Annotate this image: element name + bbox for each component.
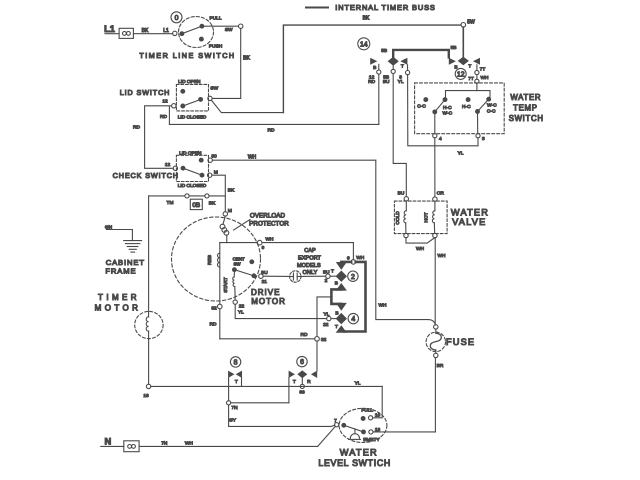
svg-text:YL: YL [238, 310, 244, 316]
motor terminal 9 [257, 236, 274, 251]
svg-text:RD: RD [301, 332, 308, 338]
svg-text:R: R [307, 379, 311, 385]
capacitor (export models only) [263, 248, 326, 282]
svg-text:SW: SW [225, 27, 233, 33]
drive motor label [251, 288, 286, 306]
svg-text:MOTOR: MOTOR [251, 297, 286, 306]
svg-text:C-C: C-C [487, 108, 496, 114]
svg-text:RD: RD [133, 125, 140, 131]
timer motor [95, 196, 163, 384]
svg-text:5W: 5W [467, 19, 475, 25]
svg-text:8: 8 [234, 360, 238, 367]
svg-text:PUSH: PUSH [209, 44, 223, 50]
svg-text:BU: BU [398, 191, 405, 197]
svg-text:WH: WH [248, 154, 257, 160]
lid switch [120, 79, 219, 121]
svg-text:YL: YL [355, 380, 361, 386]
terminal N [105, 436, 140, 451]
motor centrifugal switch [233, 257, 256, 278]
svg-text:M: M [228, 208, 232, 214]
svg-text:21: 21 [262, 279, 268, 285]
wire 7N/GY [227, 401, 335, 427]
svg-text:B: B [335, 310, 338, 316]
timer contact 2 [336, 262, 347, 291]
svg-text:4: 4 [439, 136, 442, 142]
svg-text:FUSE: FUSE [446, 337, 475, 347]
svg-text:ONLY: ONLY [302, 270, 317, 276]
svg-text:LID CLOSED: LID CLOSED [178, 183, 207, 189]
water level switch [318, 408, 391, 468]
wire RD: timer 12 down [378, 74, 380, 124]
svg-text:START: START [223, 277, 229, 292]
svg-text:COLD: COLD [395, 211, 401, 225]
svg-text:H-C: H-C [443, 105, 452, 111]
svg-text:SW: SW [233, 261, 241, 266]
timer contact 4 [336, 303, 347, 333]
wire L1 BK [105, 28, 173, 34]
svg-text:WATER: WATER [510, 93, 541, 102]
svg-text:M: M [214, 169, 218, 175]
valve COLD solenoid [395, 191, 409, 238]
svg-text:SW: SW [210, 85, 218, 91]
svg-text:BU: BU [261, 270, 268, 276]
svg-text:7N: 7N [161, 440, 168, 446]
svg-text:4: 4 [351, 316, 355, 323]
svg-text:FRAME: FRAME [105, 266, 136, 275]
svg-text:BK: BK [363, 15, 370, 21]
svg-text:OVERLOAD: OVERLOAD [250, 212, 286, 219]
timer terminal 2 [323, 269, 338, 287]
wire RD: lid switch 12 to check switch 12 [133, 106, 173, 169]
svg-text:16: 16 [375, 413, 381, 419]
timer contact 12 [455, 27, 466, 79]
svg-text:L1: L1 [163, 28, 169, 34]
timer contact 14 [358, 38, 457, 58]
svg-text:C-C: C-C [417, 104, 426, 110]
wire: water level 13 to fuse BR [373, 358, 444, 432]
svg-text:RES: RES [207, 255, 213, 265]
svg-text:WH: WH [438, 253, 447, 259]
timer contact 8 [230, 357, 240, 367]
svg-text:LID SWITCH: LID SWITCH [120, 88, 171, 97]
timer contact block 2/4: thick bars [331, 262, 365, 332]
water valve [394, 201, 489, 234]
temp switch terminal 3 [476, 134, 485, 142]
svg-text:7N: 7N [231, 405, 238, 411]
drive motor frame wires [220, 243, 354, 339]
svg-text:W-C: W-C [443, 110, 453, 116]
svg-text:CAP: CAP [304, 248, 316, 254]
svg-text:LID OPEN: LID OPEN [179, 150, 202, 156]
svg-text:RD: RD [268, 128, 275, 134]
svg-text:WH: WH [266, 236, 275, 242]
svg-text:YL: YL [323, 312, 329, 318]
svg-text:22: 22 [239, 303, 245, 309]
svg-text:B: B [335, 281, 338, 287]
svg-text:9: 9 [347, 255, 350, 261]
svg-text:T: T [331, 269, 334, 275]
svg-text:T: T [468, 63, 471, 69]
svg-text:WH: WH [416, 246, 425, 252]
svg-text:FULL: FULL [361, 408, 373, 414]
svg-text:T: T [293, 379, 296, 385]
wire BK: timer line switch to lid switch SW [212, 28, 250, 98]
svg-text:RD: RD [160, 114, 167, 120]
water temp switch [415, 83, 544, 134]
motor terminal 22 [233, 300, 244, 316]
timer contact 6 [297, 356, 307, 366]
svg-text:TIMER: TIMER [98, 293, 140, 302]
svg-text:0: 0 [175, 15, 179, 22]
svg-text:CHECK SWITCH: CHECK SWITCH [113, 171, 179, 180]
svg-text:WH: WH [481, 75, 490, 81]
svg-text:T: T [335, 324, 338, 330]
motor RES winding [207, 253, 220, 267]
svg-text:WH: WH [379, 303, 388, 309]
svg-text:32: 32 [211, 306, 217, 312]
node M [223, 208, 232, 216]
svg-text:PULL: PULL [210, 16, 222, 22]
svg-text:B: B [454, 64, 457, 70]
svg-text:32: 32 [321, 337, 327, 343]
svg-text:BR: BR [437, 363, 444, 369]
wire RD: timer 12 to lid/check 12 net [169, 107, 379, 134]
wire YL: timer 3 to temp switch 3 [408, 75, 478, 157]
svg-text:BK: BK [142, 28, 149, 34]
circled 4 [348, 313, 358, 323]
svg-text:2: 2 [351, 274, 355, 281]
svg-text:RD: RD [210, 321, 217, 327]
svg-text:MODELS: MODELS [297, 263, 321, 269]
wire BU: timer 5B to valve cold [393, 74, 406, 197]
connector 0B [190, 199, 202, 209]
svg-text:7T: 7T [468, 76, 474, 82]
svg-text:BK: BK [209, 201, 216, 207]
wire TM to M node with connector 0B [149, 194, 226, 207]
wire YL: motor 22 to timer 22 [235, 304, 326, 318]
drive motor outline (dashed) [172, 217, 261, 301]
svg-text:0B: 0B [192, 202, 200, 209]
svg-text:B: B [373, 65, 376, 71]
svg-text:T: T [235, 379, 238, 385]
motor START winding [223, 272, 235, 300]
svg-text:PROTECTOR: PROTECTOR [249, 220, 289, 227]
svg-text:WH: WH [356, 255, 365, 261]
fuse [426, 325, 475, 358]
svg-text:TM: TM [167, 200, 174, 206]
svg-text:EMPTY: EMPTY [363, 437, 380, 443]
svg-text:WH: WH [185, 441, 194, 447]
svg-text:6: 6 [300, 359, 304, 366]
svg-text:5B: 5B [451, 45, 457, 51]
svg-text:12: 12 [457, 72, 465, 79]
svg-text:LID OPEN: LID OPEN [178, 79, 201, 85]
legend: internal timer buss [306, 3, 436, 12]
svg-text:WATER: WATER [340, 447, 378, 457]
svg-text:SWITCH: SWITCH [509, 114, 544, 123]
svg-text:HOT: HOT [424, 212, 430, 222]
ground GN / cabinet frame [105, 224, 145, 275]
svg-text:BK: BK [243, 56, 250, 62]
overload protector [220, 212, 289, 242]
node 16 / timer motor feed line [143, 380, 382, 417]
svg-text:H-C: H-C [462, 104, 471, 110]
valve HOT solenoid [424, 191, 445, 238]
svg-text:2: 2 [325, 278, 328, 284]
svg-text:YL: YL [458, 151, 464, 157]
circled 2 [348, 271, 358, 281]
temp switch terminal 4 [433, 134, 442, 197]
svg-text:86: 86 [299, 389, 305, 395]
wire BK: check switch M to motor M [212, 175, 235, 212]
svg-text:EXPORT: EXPORT [298, 256, 321, 262]
svg-text:LID CLOSED: LID CLOSED [178, 114, 207, 120]
wire WH: check switch 30 to fuse [212, 154, 435, 325]
svg-text:22: 22 [323, 322, 329, 328]
motor terminal 32 [210, 304, 223, 327]
svg-text:5B: 5B [381, 48, 387, 54]
svg-text:7T: 7T [480, 67, 486, 73]
svg-text:OR: OR [437, 191, 445, 197]
svg-text:BU: BU [383, 79, 390, 85]
svg-text:L1: L1 [104, 24, 115, 34]
svg-text:N: N [105, 436, 112, 446]
timer contact block 2/4: node 9 [347, 255, 365, 264]
svg-text:BK: BK [228, 188, 235, 194]
svg-text:DRIVE: DRIVE [251, 288, 280, 297]
wire: internal timer buss BK [283, 15, 461, 112]
terminal L1 [104, 24, 133, 39]
svg-text:14: 14 [360, 42, 368, 49]
wire WH: valve outputs to fuse [406, 238, 446, 325]
svg-text:W-C: W-C [487, 103, 497, 109]
svg-text:YL: YL [398, 79, 404, 85]
svg-text:LEVEL SWTICH: LEVEL SWTICH [318, 458, 391, 468]
timer terminal 22 [323, 310, 338, 330]
wire: buss drop to lid switch SW [211, 100, 283, 112]
svg-text:16: 16 [143, 393, 149, 399]
svg-text:TIMER LINE SWITCH: TIMER LINE SWITCH [139, 51, 235, 60]
motor terminal 21 [259, 270, 269, 285]
svg-text:VALVE: VALVE [452, 217, 486, 227]
node 32 junction [301, 297, 332, 371]
svg-text:12: 12 [165, 162, 171, 168]
wire N WH [101, 427, 335, 447]
svg-text:GY: GY [229, 418, 237, 424]
svg-text:MOTOR: MOTOR [95, 303, 142, 312]
svg-text:3: 3 [482, 136, 485, 142]
svg-text:12: 12 [162, 98, 168, 104]
svg-text:RD: RD [368, 79, 375, 85]
check switch [113, 150, 218, 188]
svg-text:TEMP: TEMP [513, 103, 537, 112]
timer line switch [139, 12, 242, 60]
node 5W [461, 19, 475, 27]
svg-text:9: 9 [262, 245, 265, 251]
svg-text:BU: BU [323, 270, 330, 276]
svg-text:INTERNAL TIMER BUSS: INTERNAL TIMER BUSS [335, 3, 435, 12]
svg-text:T: T [401, 64, 404, 70]
